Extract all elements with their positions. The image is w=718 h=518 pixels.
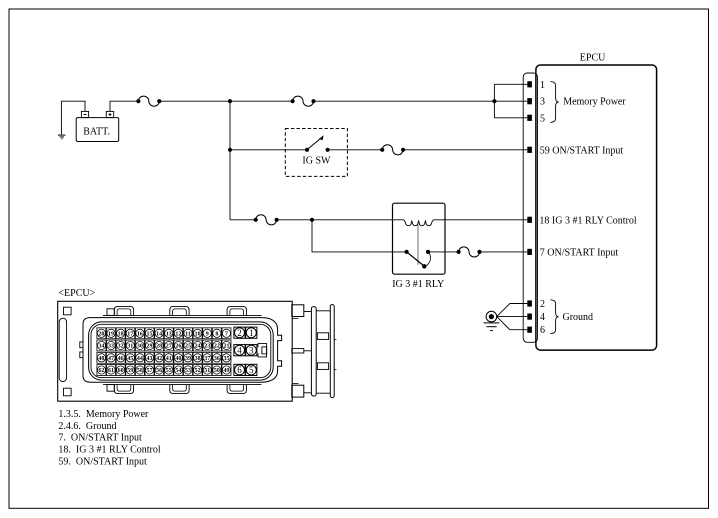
connector housing corner squares — [64, 307, 72, 396]
pin 18 label — [539, 215, 636, 226]
svg-text:62: 62 — [98, 368, 104, 374]
pin 3 — [527, 98, 532, 104]
svg-text:31: 31 — [127, 344, 133, 350]
wire fuse F4 to node — [277, 219, 312, 221]
svg-text:56: 56 — [156, 368, 162, 374]
svg-text:1: 1 — [540, 80, 545, 91]
svg-text:4: 4 — [237, 345, 242, 355]
svg-text:15: 15 — [147, 331, 153, 337]
svg-text:34: 34 — [98, 344, 104, 350]
connector pin 5 — [246, 364, 257, 375]
svg-text:23: 23 — [204, 344, 210, 350]
svg-text:10: 10 — [195, 331, 201, 337]
connector pin 39 — [183, 352, 192, 363]
svg-text:33: 33 — [108, 344, 114, 350]
svg-text:45: 45 — [127, 356, 133, 362]
svg-text:2: 2 — [540, 299, 545, 310]
fuse F1 (battery feed) — [136, 96, 161, 106]
node memory power bus — [492, 84, 527, 118]
svg-text:8: 8 — [215, 331, 218, 337]
svg-text:5: 5 — [249, 365, 254, 375]
connector bottom tab 1 — [114, 385, 133, 394]
svg-text:44: 44 — [137, 356, 143, 362]
connector top stub — [107, 309, 114, 316]
connector side view bottom tab — [292, 383, 304, 397]
svg-text:26: 26 — [175, 344, 181, 350]
connector pin 3 — [246, 345, 257, 356]
svg-text:53: 53 — [185, 368, 191, 374]
svg-text:17: 17 — [127, 331, 133, 337]
svg-text:5: 5 — [540, 113, 545, 124]
svg-text:60: 60 — [118, 368, 124, 374]
connector pin 37 — [203, 352, 212, 363]
pin 4 — [527, 314, 532, 320]
brace ground — [550, 300, 558, 334]
connector pin 1 — [246, 327, 257, 338]
pin 7 label — [540, 247, 619, 258]
connector pin 58 — [135, 365, 144, 376]
wire relay output — [428, 251, 459, 253]
svg-text:3: 3 — [249, 345, 254, 355]
svg-text:6: 6 — [237, 365, 242, 375]
switch IG SW — [285, 129, 347, 177]
connector pin 8 — [212, 328, 221, 339]
connector pin 44 — [135, 352, 144, 363]
ground (battery negative) — [58, 135, 66, 139]
connector pin 18 — [116, 328, 125, 339]
pin 5 label — [540, 113, 545, 124]
svg-text:7. ON/START Input: 7. ON/START Input — [58, 433, 142, 444]
svg-text:9: 9 — [206, 331, 209, 337]
connector pin 42 — [155, 352, 164, 363]
connector pin 10 — [193, 328, 202, 339]
pin 6 label — [540, 325, 545, 336]
wire node to relay contact — [312, 220, 407, 252]
svg-text:61: 61 — [108, 368, 114, 374]
svg-text:46: 46 — [118, 356, 124, 362]
connector pin 25 — [183, 340, 192, 351]
connector pin 36 — [212, 352, 221, 363]
svg-text:22: 22 — [214, 344, 220, 350]
connector pin 62 — [97, 365, 106, 376]
connector pin 61 — [107, 365, 116, 376]
wire IG SW to fuse F3 — [328, 149, 383, 151]
svg-text:19: 19 — [108, 331, 114, 337]
svg-text:1: 1 — [249, 328, 254, 338]
connector pin 17 — [126, 328, 135, 339]
connector pin 14 — [155, 328, 164, 339]
connector pin 21 — [222, 340, 231, 351]
connector pin 28 — [155, 340, 164, 351]
connector shell body — [80, 315, 282, 384]
connector pin 33 — [107, 340, 116, 351]
svg-text:7: 7 — [225, 331, 228, 337]
connector pin 34 — [97, 340, 106, 351]
ECU box EPCU — [536, 53, 657, 351]
wire ground to pin 2 — [497, 304, 528, 317]
label Ground — [563, 312, 594, 323]
pin 1 — [527, 81, 532, 87]
svg-text:Memory Power: Memory Power — [563, 97, 626, 108]
connector pin 50 — [212, 365, 221, 376]
svg-text:14: 14 — [156, 331, 162, 337]
connector pin 2 — [234, 327, 245, 338]
fuse F3 (ON/START) — [380, 145, 405, 155]
connector pin 4 — [234, 345, 245, 356]
connector pin 55 — [164, 365, 173, 376]
svg-text:EPCU: EPCU — [580, 53, 606, 64]
connector top tab 1 — [114, 306, 133, 315]
connector bottom tab 2 — [170, 385, 189, 394]
connector pin 54 — [174, 365, 183, 376]
svg-text:18: 18 — [118, 331, 124, 337]
pin 59 label — [540, 145, 624, 156]
svg-text:11: 11 — [185, 331, 191, 337]
pin 1 label — [540, 80, 545, 91]
svg-text:6: 6 — [540, 325, 545, 336]
svg-text:40: 40 — [175, 356, 181, 362]
connector pin 19 — [107, 328, 116, 339]
svg-text:41: 41 — [166, 356, 172, 362]
node relay branch — [310, 218, 314, 222]
connector left latch bar — [59, 318, 66, 381]
fuse F5 (ON/START to pin 7) — [457, 247, 482, 257]
svg-text:50: 50 — [214, 368, 220, 374]
legend line 3 — [58, 433, 142, 444]
svg-text:24: 24 — [195, 344, 201, 350]
pin 4 label — [540, 312, 545, 323]
connector pin 47 — [107, 352, 116, 363]
label Memory Power — [563, 97, 626, 108]
ground G2 (EPCU ground) — [484, 311, 500, 330]
svg-text:2: 2 — [237, 328, 242, 338]
svg-text:1.3.5. Memory Power: 1.3.5. Memory Power — [58, 409, 149, 420]
connector top tab 3 — [227, 306, 246, 315]
connector label <EPCU> — [58, 288, 95, 299]
connector pin 59 — [126, 365, 135, 376]
svg-text:BATT.: BATT. — [83, 127, 110, 138]
wire top feed — [159, 100, 292, 102]
connector pin 52 — [193, 365, 202, 376]
svg-text:21: 21 — [223, 344, 229, 350]
pin 18 — [527, 217, 532, 223]
svg-text:59. ON/START Input: 59. ON/START Input — [58, 456, 147, 467]
svg-text:37: 37 — [204, 356, 210, 362]
brace memory power — [550, 82, 558, 123]
wire to memory power bus — [314, 100, 495, 102]
svg-text:59 ON/START Input: 59 ON/START Input — [540, 145, 624, 156]
connector key slot — [258, 344, 267, 357]
pin 2 — [527, 300, 532, 306]
connector pin 35 — [222, 352, 231, 363]
pin 7 — [527, 249, 532, 255]
legend line 4 — [58, 444, 160, 455]
connector pin 43 — [145, 352, 154, 363]
connector pin 12 — [174, 328, 183, 339]
svg-text:18. IG 3 #1 RLY Control: 18. IG 3 #1 RLY Control — [58, 444, 160, 455]
connector pin 9 — [203, 328, 212, 339]
connector pin 60 — [116, 365, 125, 376]
svg-text:IG SW: IG SW — [302, 156, 331, 167]
connector pin 31 — [126, 340, 135, 351]
connector side view rib — [311, 307, 316, 396]
svg-text:28: 28 — [156, 344, 162, 350]
legend line 2 — [58, 421, 116, 432]
connector pin face outline — [89, 322, 274, 380]
connector pin 41 — [164, 352, 173, 363]
wire battery negative to ground — [61, 101, 85, 135]
svg-text:58: 58 — [137, 368, 143, 374]
node junction ignition branch — [228, 148, 232, 152]
svg-text:47: 47 — [108, 356, 114, 362]
svg-text:43: 43 — [147, 356, 153, 362]
connector pin 45 — [126, 352, 135, 363]
svg-text:51: 51 — [204, 368, 210, 374]
svg-text:20: 20 — [98, 331, 104, 337]
connector pin 32 — [116, 340, 125, 351]
wire vertical branch — [229, 101, 231, 220]
svg-text:18 IG 3 #1 RLY Control: 18 IG 3 #1 RLY Control — [539, 215, 636, 226]
svg-text:57: 57 — [147, 368, 153, 374]
connector side view links — [304, 311, 331, 393]
connector pin 49 — [222, 365, 231, 376]
connector top tab 2 — [170, 306, 189, 315]
connector pin 22 — [212, 340, 221, 351]
legend line 5 — [58, 456, 147, 467]
wire relay coil to pin 18 — [312, 219, 527, 221]
svg-text:13: 13 — [166, 331, 172, 337]
svg-text:52: 52 — [195, 368, 201, 374]
svg-text:38: 38 — [195, 356, 201, 362]
connector bottom stub — [107, 385, 114, 392]
connector pin 6 — [234, 364, 245, 375]
svg-text:IG 3 #1 RLY: IG 3 #1 RLY — [392, 279, 444, 290]
svg-text:59: 59 — [127, 368, 133, 374]
connector pin 24 — [193, 340, 202, 351]
pin 6 — [527, 327, 532, 333]
wire branch to fuse F4 — [230, 219, 256, 221]
connector bottom tab 3 — [227, 385, 246, 394]
svg-text:Ground: Ground — [563, 312, 594, 323]
connector pin 26 — [174, 340, 183, 351]
pin 3 label — [540, 97, 545, 108]
battery BATT. — [76, 111, 119, 141]
connector pin 57 — [145, 365, 154, 376]
wire ground to pin 4 — [497, 316, 528, 318]
node junction top feed / ignition branch — [228, 99, 232, 103]
connector side view middle tab — [292, 349, 304, 353]
connector pin 16 — [135, 328, 144, 339]
svg-text:32: 32 — [118, 344, 124, 350]
svg-text:12: 12 — [175, 331, 181, 337]
connector side view top tab — [292, 305, 304, 319]
connector housing outline — [58, 301, 293, 401]
wire to IG SW — [230, 149, 307, 151]
connector pin 15 — [145, 328, 154, 339]
connector pin 38 — [193, 352, 202, 363]
svg-text:4: 4 — [540, 312, 545, 323]
wire battery positive — [110, 101, 138, 111]
svg-text:55: 55 — [166, 368, 172, 374]
fuse F4 (relay feed) — [254, 215, 279, 225]
svg-text:30: 30 — [137, 344, 143, 350]
svg-text:27: 27 — [166, 344, 172, 350]
connector pin 46 — [116, 352, 125, 363]
svg-text:49: 49 — [223, 368, 229, 374]
relay IG 3 #1 RLY — [392, 203, 445, 290]
pin 2 label — [540, 299, 545, 310]
wire to pin 59 — [403, 149, 527, 151]
connector pin 51 — [203, 365, 212, 376]
svg-text:42: 42 — [156, 356, 162, 362]
svg-text:2.4.6. Ground: 2.4.6. Ground — [58, 421, 116, 432]
connector pin 29 — [145, 340, 154, 351]
svg-text:36: 36 — [214, 356, 220, 362]
connector pin 13 — [164, 328, 173, 339]
svg-text:16: 16 — [137, 331, 143, 337]
svg-text:<EPCU>: <EPCU> — [58, 288, 95, 299]
connector side view end plate — [330, 305, 334, 398]
svg-text:39: 39 — [185, 356, 191, 362]
connector pin 30 — [135, 340, 144, 351]
connector pin 7 — [222, 328, 231, 339]
svg-text:35: 35 — [223, 356, 229, 362]
fuse F2 (memory power) — [291, 96, 316, 106]
connector pin 27 — [164, 340, 173, 351]
pin 59 — [527, 147, 532, 153]
EPCU connector shell — [523, 73, 537, 342]
pin 5 — [527, 115, 532, 121]
connector side view slots — [317, 333, 336, 370]
svg-text:29: 29 — [147, 344, 153, 350]
wire ground to pin 6 — [497, 317, 528, 330]
svg-text:48: 48 — [98, 356, 104, 362]
connector pin 40 — [174, 352, 183, 363]
wire to pin 7 — [480, 251, 528, 253]
connector pin 56 — [155, 365, 164, 376]
connector pin 11 — [183, 328, 192, 339]
connector pin 20 — [97, 328, 106, 339]
svg-text:3: 3 — [540, 97, 545, 108]
svg-text:7 ON/START Input: 7 ON/START Input — [540, 247, 619, 258]
svg-text:25: 25 — [185, 344, 191, 350]
legend line 1 — [58, 409, 149, 420]
connector pin 48 — [97, 352, 106, 363]
connector pin 23 — [203, 340, 212, 351]
svg-text:54: 54 — [175, 368, 181, 374]
connector pin 53 — [183, 365, 192, 376]
